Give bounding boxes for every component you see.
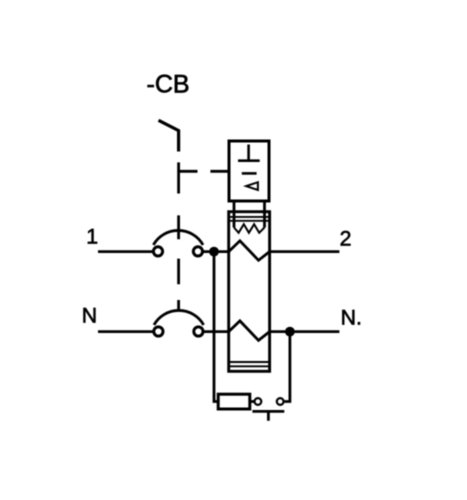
core lamination lines top (229, 217, 270, 221)
wire terminal N to contact (98, 330, 153, 333)
junction dot pole 1 (209, 247, 219, 257)
wire contact to CT (203, 250, 230, 253)
wire CT to terminal N. (270, 330, 340, 333)
test resistor R (218, 394, 250, 409)
pole 1 fixed contact (153, 247, 162, 256)
switch lever (159, 120, 179, 151)
pole N fixed contact (154, 327, 163, 336)
pole 1 contact arc (153, 230, 203, 244)
wire contact to CT pole N (203, 330, 229, 333)
trip coil connection wires (234, 201, 265, 228)
current transformer core (229, 212, 270, 372)
pole N contact arc (154, 310, 204, 324)
pole 1 moving contact (193, 247, 202, 256)
test button actuator (252, 411, 284, 420)
thermal release symbol (238, 145, 260, 161)
wire terminal 1 to contact (98, 250, 153, 253)
trip coil winding zigzag (234, 224, 265, 233)
trip unit U1 box (229, 141, 269, 201)
test button contact left (255, 398, 262, 405)
svg-text:N: N (82, 304, 97, 328)
junction dot pole N (285, 327, 295, 337)
wire resistor to test button (250, 400, 254, 403)
mechanical linkage to trip unit (dashed horizontal) (179, 170, 230, 173)
pole N moving contact (194, 327, 203, 336)
magnetic release symbol (242, 172, 257, 175)
pole 1 primary conductor zigzag (229, 241, 270, 260)
test circuit wire right (285, 332, 290, 402)
svg-text:1: 1 (86, 224, 98, 248)
wire CT to terminal 2 (270, 250, 340, 253)
test button contact right (277, 398, 284, 405)
core lamination lines bottom (229, 362, 270, 366)
test circuit wire left (214, 252, 218, 402)
mechanical linkage (dashed vertical) (177, 162, 180, 310)
svg-text:N.: N. (341, 306, 362, 330)
svg-text:2: 2 (340, 226, 352, 250)
pole N primary conductor zigzag (229, 321, 270, 341)
svg-text:-CB: -CB (147, 71, 190, 99)
